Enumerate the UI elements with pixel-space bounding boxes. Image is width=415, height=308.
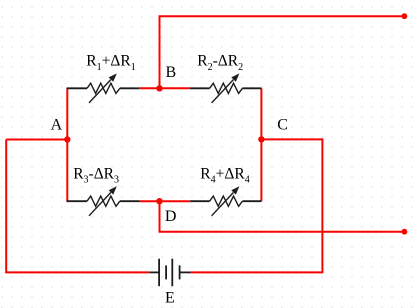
resistor R1 body <box>87 73 120 103</box>
resistor R3 body <box>87 186 120 216</box>
resistor R4 right lead <box>242 200 261 202</box>
resistor R1 right lead <box>120 87 140 89</box>
svg-text:C: C <box>277 117 288 134</box>
resistor R2 body <box>210 73 243 103</box>
wire from node B up and right to top terminal <box>160 16 405 88</box>
svg-text:D: D <box>165 208 177 225</box>
wire right vertical R2 to R4 through node C <box>260 88 262 201</box>
node D <box>156 198 162 204</box>
resistor R3 right lead <box>120 200 140 202</box>
resistor R2 right lead <box>242 87 261 89</box>
svg-text:A: A <box>51 117 63 134</box>
resistor R3 left lead <box>67 200 88 202</box>
wire node D down and right to mid terminal <box>160 201 405 232</box>
wire node A to left rail <box>6 139 67 141</box>
battery E plate 1 long <box>158 259 160 287</box>
resistor R4 body <box>210 186 243 216</box>
wire through node D horizontal <box>140 200 191 202</box>
battery E right lead <box>180 271 191 273</box>
resistor R4 left lead <box>190 200 209 202</box>
wire node C right, down, left to battery <box>191 139 323 272</box>
battery E left lead <box>149 271 159 273</box>
node B <box>156 85 162 91</box>
terminal dot middle right <box>402 229 408 235</box>
wire through node B horizontal <box>139 87 190 89</box>
resistor R1 left lead <box>67 87 88 89</box>
battery E plate 2 short <box>165 265 167 279</box>
battery E plate 4 short <box>179 265 181 279</box>
node A <box>64 136 70 142</box>
wire left vertical R1 to R3 through node A <box>66 88 68 201</box>
terminal dot top right <box>402 13 408 19</box>
battery E plate 3 long <box>171 259 173 287</box>
wire left rail down and to battery <box>6 140 149 273</box>
svg-text:B: B <box>166 64 177 81</box>
svg-text:E: E <box>165 289 175 306</box>
node C <box>258 136 264 142</box>
resistor R2 left lead <box>190 87 210 89</box>
